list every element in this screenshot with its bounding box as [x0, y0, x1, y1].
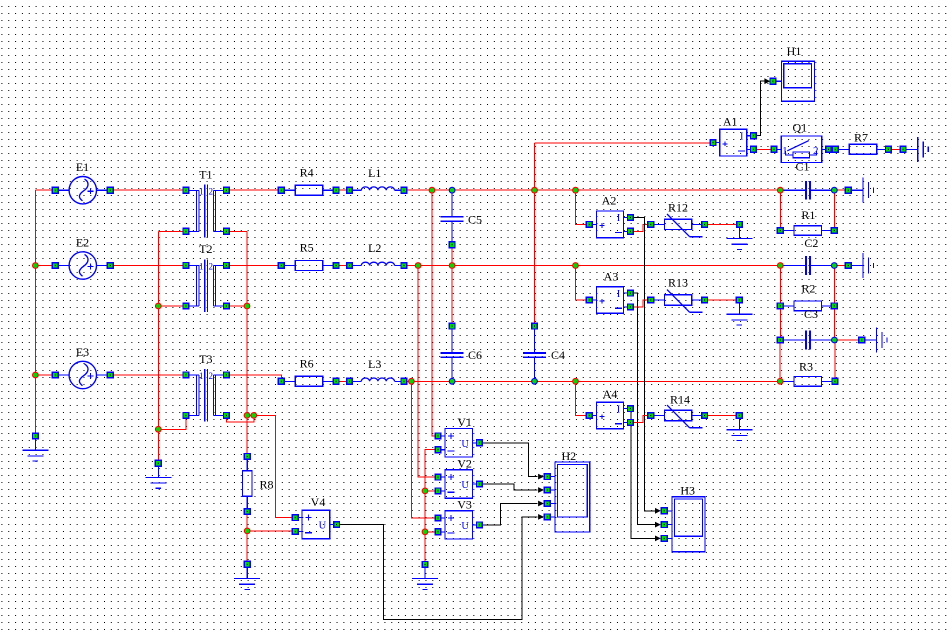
- node row1 C1 left: [777, 187, 784, 194]
- wire V2 plus feed: [418, 266, 435, 478]
- wire node pair link: [247, 414, 254, 416]
- node row3 A4 tap: [572, 378, 579, 385]
- wire A1 drop / C4 feed: [534, 143, 536, 326]
- wire R2 right vert bottom: [833, 306, 835, 340]
- svg-text:R8: R8: [259, 478, 273, 492]
- wire T2 sec left: [158, 305, 186, 307]
- node row2 C5 bottom tap: [449, 262, 456, 269]
- node left rail row2: [32, 262, 39, 269]
- wire E2 to T2: [110, 265, 186, 267]
- svg-text:2: 2: [209, 262, 214, 272]
- svg-text:R7: R7: [854, 131, 868, 145]
- svg-text:C3: C3: [804, 307, 818, 321]
- wire row2 to C6: [451, 266, 453, 327]
- ammeter A1: [713, 129, 753, 156]
- voltmeter V2: [438, 470, 479, 498]
- indicator H1: [776, 61, 814, 101]
- capacitor C2: [780, 256, 834, 275]
- node row2 C2 right: [831, 262, 838, 269]
- wire A2 out red: [630, 224, 648, 231]
- node row1 C1 right: [831, 187, 838, 194]
- wire R4 to L1: [336, 189, 349, 191]
- rheostat R12: [651, 214, 705, 237]
- node sec chain T2 right: [244, 303, 251, 310]
- wire R8 to V4 minus node: [246, 512, 248, 565]
- svg-text:H2: H2: [561, 449, 576, 463]
- inductor L3: [350, 378, 404, 381]
- resistor R4: [281, 185, 336, 195]
- svg-text:R4: R4: [300, 165, 314, 179]
- svg-text:Q1: Q1: [792, 120, 807, 134]
- wire A3 out red: [630, 300, 648, 307]
- wire R7 to ground: [888, 148, 900, 150]
- node row1 A2 tap: [572, 187, 579, 194]
- wire T2 sec right: [226, 305, 247, 307]
- wire R2 left vert bottom: [779, 306, 781, 340]
- AC source E3: [59, 361, 107, 388]
- svg-text:R6: R6: [300, 357, 314, 371]
- wire A3 feed: [576, 266, 587, 301]
- transformer T3: [186, 369, 227, 422]
- wire Q1 to R7: [829, 148, 836, 150]
- svg-text:V3: V3: [457, 498, 472, 512]
- svg-text:H1: H1: [787, 44, 802, 58]
- arrow H2 input4: [538, 514, 544, 520]
- resistor R6: [281, 376, 336, 386]
- wire R1 left vert: [779, 190, 781, 230]
- svg-text:L1: L1: [368, 166, 381, 180]
- svg-text:1: 1: [199, 262, 204, 272]
- transformer T2: [186, 259, 227, 312]
- wire V3 to H2 black: [480, 504, 538, 525]
- wire T3 sec left jog: [158, 415, 186, 429]
- arrow H1 input: [764, 78, 770, 84]
- node R3 left node: [777, 378, 784, 385]
- arrow H3 input2: [655, 522, 661, 528]
- svg-text:C6: C6: [468, 348, 482, 362]
- node row3 C6 bottom: [449, 378, 456, 385]
- wire C3 to ground: [834, 339, 858, 341]
- wire C2 to ground: [834, 265, 845, 267]
- wire V3 plus feed: [411, 381, 435, 518]
- svg-text:E1: E1: [76, 160, 89, 174]
- svg-text:V4: V4: [311, 495, 326, 509]
- wire row1 left stub: [35, 189, 52, 191]
- arrow H2 input2: [538, 487, 544, 493]
- svg-text:R1: R1: [801, 208, 815, 222]
- node C3 right node: [831, 337, 838, 344]
- ammeter A4: [589, 402, 630, 429]
- svg-text:U: U: [319, 521, 327, 532]
- svg-text:U: U: [461, 480, 469, 491]
- wire R1 right vert: [833, 190, 835, 230]
- wire R2 left vert top: [779, 266, 781, 306]
- wire row1 main: [404, 189, 780, 191]
- capacitor C6: [441, 329, 464, 381]
- ground row2 ground: [848, 253, 873, 278]
- wire V minus chain: [425, 450, 438, 565]
- voltmeter V4: [295, 510, 336, 538]
- node sec chain V4 tap: [250, 412, 257, 419]
- wire R13 to ground: [705, 299, 736, 301]
- svg-text:I: I: [617, 213, 621, 224]
- node row2 C2 left: [777, 262, 784, 269]
- wire A1 to Q1: [753, 148, 771, 150]
- ground row1 ground: [848, 178, 873, 203]
- wire R3 left vert: [779, 340, 781, 381]
- svg-text:R2: R2: [801, 282, 815, 296]
- wire V4 plus feed: [254, 415, 292, 517]
- svg-text:T2: T2: [199, 242, 212, 256]
- svg-text:V2: V2: [457, 457, 472, 471]
- wire right sec chain: [246, 231, 248, 456]
- ground V chain ground: [412, 564, 438, 589]
- node row3 C4 bottom: [531, 378, 538, 385]
- wire R3 right vert: [834, 340, 836, 381]
- svg-text:A4: A4: [603, 387, 618, 401]
- wire V2 minus stub: [425, 490, 435, 492]
- node row1 C4 tap: [531, 187, 538, 194]
- wire V4 to H2 black: [336, 517, 537, 620]
- svg-text:T1: T1: [199, 167, 212, 181]
- wire T1 to R4: [226, 189, 281, 191]
- ground R13: [726, 300, 752, 325]
- wire R12 to ground: [705, 223, 736, 225]
- svg-text:T3: T3: [199, 352, 212, 366]
- wire R2 right vert top: [833, 266, 835, 306]
- wire A3 to H3 black: [630, 293, 656, 524]
- node row2 A3 tap: [572, 262, 579, 269]
- wire R6 to L3: [336, 380, 349, 382]
- arrow H3 input1: [655, 508, 661, 514]
- wire A1 feed: [535, 142, 711, 144]
- svg-text:2: 2: [209, 187, 214, 197]
- ground R12: [727, 224, 753, 249]
- indicator H2: [551, 462, 590, 532]
- wire left rail vertical: [34, 190, 36, 436]
- svg-text:E3: E3: [76, 345, 89, 359]
- indicator H3: [668, 497, 706, 552]
- svg-text:2: 2: [209, 371, 214, 381]
- wire T3 to R6 jog: [226, 375, 281, 381]
- svg-text:2: 2: [813, 145, 819, 157]
- ground T chain ground: [145, 463, 171, 488]
- AC source E1: [59, 177, 107, 204]
- svg-text:L2: L2: [368, 241, 381, 255]
- wire row3 left stub: [35, 374, 52, 376]
- svg-text:A2: A2: [602, 194, 617, 208]
- resistor R2: [780, 301, 834, 311]
- wire R5 to L2: [336, 265, 349, 267]
- resistor R7: [835, 144, 888, 154]
- wire E1 to T1: [110, 189, 186, 191]
- relay Q1: [774, 136, 829, 163]
- ground R14: [726, 416, 752, 441]
- voltmeter V3: [438, 511, 479, 539]
- svg-text:H3: H3: [680, 484, 695, 498]
- node sec chain T2 left: [155, 303, 162, 310]
- ground C3 row ground: [862, 328, 887, 353]
- node sec chain R8 top: [244, 412, 251, 419]
- node row1 V1 tap: [429, 187, 436, 194]
- voltmeter V1: [438, 429, 479, 457]
- svg-text:R13: R13: [668, 275, 688, 289]
- svg-text:V1: V1: [457, 415, 472, 429]
- svg-text:I: I: [740, 131, 744, 142]
- wire A4 out red: [630, 416, 648, 423]
- wire T2 to R5: [226, 265, 281, 267]
- wire V1 to H2 black: [480, 443, 538, 477]
- wire A2 to H3 black: [630, 218, 656, 511]
- wire A2 feed: [576, 190, 587, 224]
- capacitor C1: [780, 181, 834, 200]
- svg-text:1: 1: [199, 371, 204, 381]
- wire V2 to H2 black: [480, 484, 538, 490]
- node row2 V2 tap: [415, 262, 422, 269]
- capacitor C5: [441, 190, 464, 245]
- node R8 V4 node: [244, 528, 251, 535]
- wire left sec chain: [157, 231, 159, 463]
- svg-text:L3: L3: [368, 357, 381, 371]
- wire row2 main: [404, 265, 780, 267]
- resistor R8: [242, 456, 252, 511]
- wire A4 feed: [576, 381, 587, 415]
- rheostat R13: [651, 290, 705, 313]
- wire T1 sec right: [226, 230, 247, 232]
- svg-text:I: I: [617, 289, 621, 300]
- AC source E2: [59, 252, 107, 279]
- svg-text:I: I: [617, 404, 621, 415]
- svg-text:1: 1: [782, 145, 788, 157]
- inductor L1: [350, 187, 404, 190]
- resistor R3: [780, 376, 835, 386]
- wire C1 to ground: [834, 189, 845, 191]
- svg-text:R5: R5: [300, 241, 314, 255]
- resistor R5: [281, 261, 336, 271]
- wire E3 to T3: [110, 374, 186, 376]
- svg-text:A1: A1: [723, 114, 738, 128]
- wire T3 sec right jog: [226, 415, 253, 422]
- node V minus V2: [422, 488, 429, 495]
- capacitor C4: [523, 329, 546, 381]
- svg-text:A3: A3: [604, 270, 619, 284]
- svg-text:E2: E2: [76, 235, 89, 249]
- node V minus V3: [422, 528, 429, 535]
- resistor R1: [780, 226, 834, 236]
- svg-text:C5: C5: [468, 213, 482, 227]
- node row1 C5 top: [449, 187, 456, 194]
- wire V4 minus feed: [247, 530, 292, 532]
- wire C5 to row2: [451, 248, 453, 266]
- capacitor C3: [780, 331, 834, 350]
- svg-text:R14: R14: [670, 392, 690, 406]
- transformer T1: [186, 184, 227, 237]
- ammeter A2: [589, 211, 630, 238]
- wire V1 plus feed: [432, 190, 435, 436]
- svg-text:C4: C4: [551, 348, 565, 362]
- wire V3 minus stub: [425, 531, 435, 533]
- wire row3 main: [404, 380, 780, 382]
- svg-text:U: U: [461, 439, 469, 450]
- svg-text:R3: R3: [799, 360, 813, 374]
- arrow H3 input3: [655, 536, 661, 542]
- svg-text:C2: C2: [804, 236, 818, 250]
- ground left rail ground: [22, 436, 48, 461]
- wire A1 to H1 black: [753, 81, 766, 136]
- wire A4 to H3 black: [630, 409, 656, 539]
- node row3 junction: [408, 378, 415, 385]
- node left rail row3: [32, 372, 39, 379]
- arrow H2 input1: [538, 474, 544, 480]
- svg-text:R12: R12: [668, 201, 688, 215]
- svg-text:U: U: [461, 521, 469, 532]
- wire R14 to ground: [705, 415, 736, 417]
- svg-text:1: 1: [199, 187, 204, 197]
- ground R7 ground: [903, 137, 928, 162]
- ground R8 ground: [234, 564, 260, 589]
- inductor L2: [350, 262, 404, 265]
- node sec chain T3 left: [155, 426, 162, 433]
- rheostat R14: [651, 405, 705, 428]
- wire row2 left stub: [35, 265, 52, 267]
- wire T1 sec left: [158, 230, 186, 232]
- ammeter A3: [589, 287, 630, 314]
- svg-text:C1: C1: [795, 160, 809, 174]
- component terminal pins: [33, 78, 907, 567]
- arrow H2 input3: [538, 501, 544, 507]
